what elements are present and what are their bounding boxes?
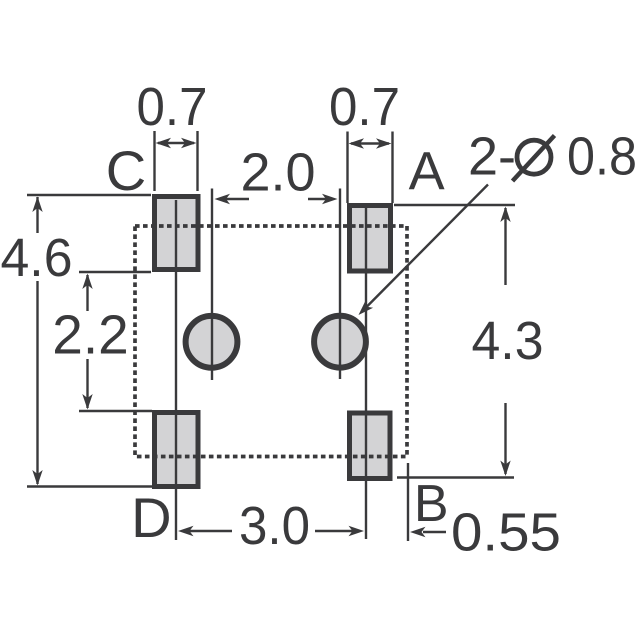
centerline through pads C and D <box>175 200 177 540</box>
svg-text:D: D <box>131 486 171 549</box>
extension line right hole center <box>339 189 341 380</box>
diameter symbol circle <box>517 140 551 174</box>
extension line pad B bottom <box>397 476 514 478</box>
svg-text:0.8: 0.8 <box>567 127 637 187</box>
svg-text:0.7: 0.7 <box>137 77 208 137</box>
arrow 0.7 C right <box>181 138 197 148</box>
pad B <box>350 413 391 479</box>
extension line 0.7 A right <box>391 132 393 204</box>
extension line 0.7 C right <box>196 131 198 191</box>
extension line left hole center <box>211 189 213 381</box>
dimension 4.6 line lower <box>36 281 38 484</box>
arrow 2.2 down <box>82 394 92 410</box>
dimension 0.55 tail <box>423 531 446 533</box>
arrow 4.6 up <box>32 197 42 213</box>
left hole <box>186 316 238 368</box>
svg-text:4.6: 4.6 <box>1 228 73 288</box>
dimension 2.0 line right <box>308 198 327 200</box>
arrow 4.6 down <box>32 470 42 486</box>
diameter symbol slash <box>513 136 555 182</box>
extension line pad D bottom <box>27 485 152 487</box>
arrow 4.3 up <box>500 207 510 223</box>
arrow 2.0 right <box>322 194 338 204</box>
arrow 0.7 A left <box>349 138 365 148</box>
pad D <box>155 413 199 487</box>
svg-text:0.7: 0.7 <box>329 77 400 137</box>
extension line 0.7 A left <box>346 132 348 204</box>
dimension 4.3 line upper <box>504 208 506 285</box>
centerline through pads A and B <box>365 208 367 539</box>
dimension 4.6 line upper <box>36 197 38 233</box>
dimension 0.55 arrow <box>410 527 426 537</box>
extension line pad C top <box>27 194 151 196</box>
dimension 3.0 line right <box>315 530 354 532</box>
arrow 2.0 left <box>215 194 231 204</box>
leader arrowhead <box>359 300 374 315</box>
dimension 4.3 line lower <box>504 403 506 474</box>
extension line pad C bottom <box>79 271 151 273</box>
component outline (dashed rectangle) <box>135 226 407 457</box>
dimension 2.2 line upper <box>86 275 88 311</box>
arrow 3.0 left <box>178 526 194 536</box>
arrow 2.2 up <box>82 274 92 290</box>
leader line 2-diameter-0.8 <box>365 185 488 309</box>
dimension 3.0 line left <box>188 530 232 532</box>
svg-text:2-: 2- <box>468 127 516 187</box>
extension line 0.7 C left <box>153 131 155 191</box>
extension line pad D top <box>79 410 152 412</box>
svg-text:2.2: 2.2 <box>52 304 128 366</box>
svg-text:4.3: 4.3 <box>472 311 544 371</box>
pad C <box>155 197 199 270</box>
svg-text:B: B <box>414 475 449 533</box>
arrow 0.7 A right <box>376 138 392 148</box>
arrow 4.3 down <box>500 461 510 477</box>
svg-text:A: A <box>409 142 445 202</box>
dimension 0.7 C line <box>158 142 194 144</box>
extension line 0.55 right <box>407 463 409 541</box>
svg-text:2.0: 2.0 <box>240 143 315 203</box>
pad A <box>350 206 391 272</box>
extension line pad A top <box>394 204 515 206</box>
dimension 2.0 line left <box>225 198 249 200</box>
dimension 2.2 line lower <box>86 359 88 408</box>
svg-text:C: C <box>106 139 146 202</box>
dimension 0.7 A line <box>351 142 389 144</box>
arrow 3.0 right <box>349 526 365 536</box>
arrow 0.7 C left <box>156 138 172 148</box>
right hole <box>314 316 366 368</box>
svg-text:0.55: 0.55 <box>451 503 561 563</box>
svg-text:3.0: 3.0 <box>239 496 310 556</box>
